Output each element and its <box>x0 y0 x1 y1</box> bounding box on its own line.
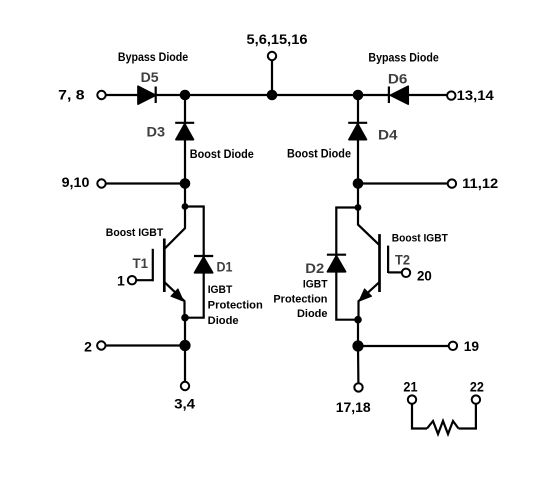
wire D6 to terminal 13,14 <box>408 94 447 96</box>
node J (emitter bus right) <box>352 340 363 351</box>
svg-text:22: 22 <box>470 378 484 394</box>
node B (right bus junction) <box>353 90 364 101</box>
terminal 5,6,15,16 <box>247 31 308 60</box>
svg-text:Boost IGBT: Boost IGBT <box>392 233 448 245</box>
svg-text:Diode: Diode <box>208 315 239 327</box>
wire node G to 11,12 <box>358 182 448 184</box>
svg-text:20: 20 <box>417 268 432 284</box>
body bar <box>163 239 166 293</box>
terminal 19 <box>449 338 480 354</box>
svg-text:IGBT: IGBT <box>303 278 328 290</box>
svg-text:Protection: Protection <box>208 299 263 311</box>
svg-text:D2: D2 <box>305 260 324 276</box>
collector lead <box>358 208 380 246</box>
wire node J to terminal 19 <box>358 345 449 347</box>
svg-text:Boost IGBT: Boost IGBT <box>106 227 164 239</box>
diode D3 <box>147 123 254 161</box>
diode D5 <box>118 52 188 104</box>
diode D6 <box>368 52 438 104</box>
svg-text:D3: D3 <box>147 123 166 139</box>
node I (emitter/diode join right) <box>354 316 362 324</box>
svg-text:Bypass Diode: Bypass Diode <box>368 52 438 64</box>
wire right branch node B down through D4 to node 11,12 <box>357 95 359 184</box>
terminal 1 <box>117 272 136 288</box>
node C <box>180 178 191 189</box>
svg-text:D4: D4 <box>378 127 398 143</box>
collector lead <box>164 207 185 249</box>
transistor T2 (boost IGBT) <box>358 208 448 320</box>
wire 2 to node F <box>106 344 186 346</box>
svg-text:D6: D6 <box>388 70 408 86</box>
node E (emitter/diode join) <box>181 314 189 322</box>
gate lead <box>388 271 402 273</box>
svg-text:Protection: Protection <box>273 293 327 305</box>
terminal 9,10 <box>62 174 106 190</box>
wire node A to center node <box>185 94 272 96</box>
svg-text:IGBT: IGBT <box>208 284 233 296</box>
wire node I to node J <box>357 320 359 346</box>
emitter arrow <box>359 289 371 301</box>
svg-text:T1: T1 <box>133 256 149 271</box>
svg-text:19: 19 <box>464 338 480 354</box>
svg-text:11,12: 11,12 <box>462 175 498 191</box>
wire center node to node B <box>272 94 358 96</box>
wire node B to D6 <box>358 94 389 96</box>
wire node H left and down to D2 (anode branch) <box>336 208 358 320</box>
svg-text:5,6,15,16: 5,6,15,16 <box>247 31 308 47</box>
emitter lead <box>165 282 185 301</box>
node G <box>353 178 364 189</box>
terminal 3,4 <box>174 382 195 412</box>
diode D1 <box>194 256 233 274</box>
svg-text:17,18: 17,18 <box>336 399 371 415</box>
node H (collector/diode tap right) <box>355 204 362 211</box>
body bar <box>378 234 381 292</box>
gate bar <box>152 249 154 281</box>
thermistor R1 (zigzag) <box>427 421 459 434</box>
terminal 11,12 <box>448 175 499 191</box>
svg-text:Bypass Diode: Bypass Diode <box>118 52 188 64</box>
diode D2 <box>305 255 346 276</box>
wire D5 to node A <box>156 94 185 96</box>
svg-text:D1: D1 <box>217 259 233 274</box>
node center bus <box>267 90 278 101</box>
svg-text:Boost Diode: Boost Diode <box>287 148 351 160</box>
svg-text:Diode: Diode <box>297 308 328 320</box>
label IGBT Protection Diode (left) <box>208 284 263 327</box>
wire thermistor to 22 <box>459 404 476 429</box>
label IGBT Protection Diode (right) <box>273 278 327 320</box>
terminal 2 <box>84 338 105 354</box>
terminal 13,14 <box>447 87 494 103</box>
svg-text:2: 2 <box>84 338 92 354</box>
transistor T1 (boost IGBT) <box>106 207 185 318</box>
svg-text:9,10: 9,10 <box>62 174 90 190</box>
terminal 22 <box>470 378 484 403</box>
terminal 7,8 <box>58 86 106 102</box>
wire node J to terminal 17,18 <box>357 346 360 383</box>
wire 7,8 to D5 <box>106 94 138 96</box>
node A (left bus junction) <box>180 90 191 101</box>
emitter lead <box>359 282 380 301</box>
wire top terminal to center node <box>271 60 273 95</box>
gate lead <box>136 279 153 281</box>
terminal 20 <box>402 268 432 284</box>
wire 21 down to thermistor <box>412 404 427 429</box>
svg-text:7, 8: 7, 8 <box>58 86 85 102</box>
svg-text:13,14: 13,14 <box>457 87 494 103</box>
svg-text:3,4: 3,4 <box>174 396 195 412</box>
terminal 21 <box>403 378 417 403</box>
emitter arrow <box>171 289 183 301</box>
node D (collector/diode tap) <box>182 203 189 210</box>
svg-text:1: 1 <box>117 272 125 288</box>
wire node D right and down to D1 (anode branch) <box>185 207 204 318</box>
svg-text:21: 21 <box>403 378 417 394</box>
wire node G to node H <box>357 184 359 208</box>
terminal 17,18 <box>336 383 371 415</box>
wire node C to node D <box>184 184 186 207</box>
wire node E to node F <box>184 318 186 346</box>
diode D4 <box>287 123 398 161</box>
gate bar <box>387 246 389 273</box>
wire node F to terminal 3,4 <box>184 346 186 382</box>
wire left branch node A down through D3 to node 9,10 <box>184 95 186 184</box>
wire 9,10 to node C <box>106 182 185 184</box>
svg-text:D5: D5 <box>141 69 159 85</box>
node F (emitter bus) <box>179 340 190 351</box>
svg-text:Boost Diode: Boost Diode <box>190 149 254 161</box>
svg-text:T2: T2 <box>395 253 410 268</box>
